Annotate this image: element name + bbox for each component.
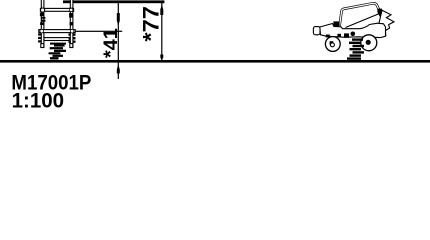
svg-text:*77: *77 — [139, 6, 164, 42]
svg-text:*41: *41 — [100, 28, 122, 58]
svg-text:1:100: 1:100 — [12, 89, 65, 112]
